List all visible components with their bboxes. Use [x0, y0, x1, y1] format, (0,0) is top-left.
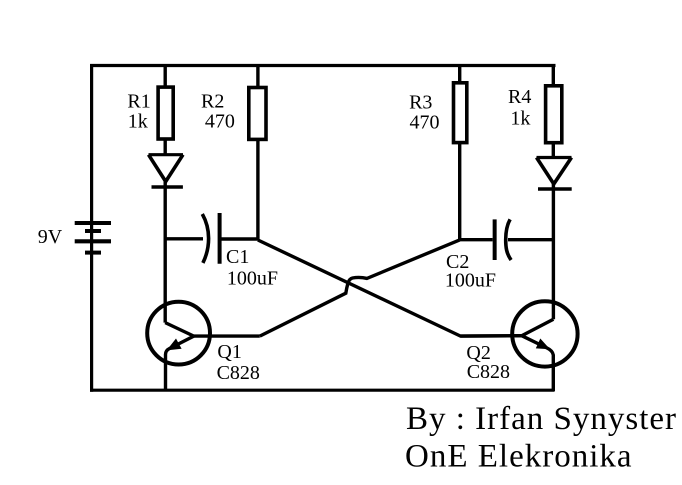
svg-text:470: 470 [205, 110, 235, 132]
svg-text:C1: C1 [226, 246, 249, 268]
svg-text:R2: R2 [201, 91, 224, 113]
svg-text:C828: C828 [217, 362, 260, 384]
svg-text:1k: 1k [510, 108, 530, 130]
svg-text:C828: C828 [467, 361, 510, 383]
svg-text:100uF: 100uF [445, 270, 496, 292]
svg-text:By : Irfan Synyster: By : Irfan Synyster [406, 401, 677, 437]
svg-text:100uF: 100uF [227, 268, 278, 290]
svg-text:R3: R3 [409, 92, 432, 114]
svg-text:470: 470 [410, 111, 440, 133]
svg-text:Q1: Q1 [217, 341, 241, 363]
svg-text:9V: 9V [38, 226, 63, 248]
svg-text:R1: R1 [127, 91, 150, 113]
svg-text:R4: R4 [508, 86, 531, 108]
svg-text:1k: 1k [128, 110, 148, 132]
svg-text:OnE Elekronika: OnE Elekronika [405, 439, 633, 475]
